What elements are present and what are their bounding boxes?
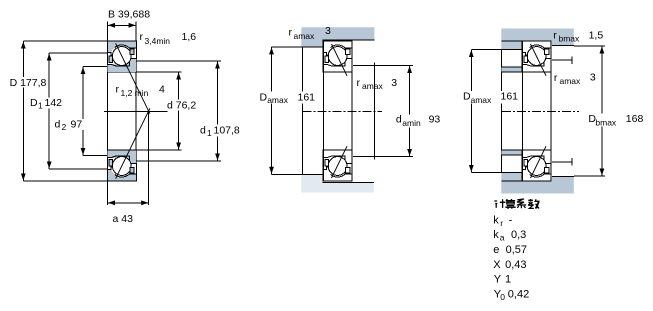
label D_bmax 168 [587, 114, 643, 127]
title 计算系数 drawn as stroke glyphs [494, 199, 539, 209]
svg-text:amax: amax [294, 31, 316, 41]
D_amax dimension [272, 46, 302, 48]
svg-text:r: r [116, 84, 120, 96]
svg-text:107,8: 107,8 [214, 125, 240, 137]
算 [505, 199, 515, 209]
contact line top [531, 44, 547, 76]
svg-text:1,6: 1,6 [182, 31, 197, 43]
svg-text:r: r [500, 218, 503, 228]
d1 dimension [136, 60, 221, 62]
svg-text:amax: amax [267, 95, 289, 105]
bearing right face vertical [550, 41, 552, 181]
label d_amin 93 [395, 115, 441, 128]
D dimension [23, 40, 107, 42]
label D 177,8 [9, 77, 51, 88]
housing top bar with steps [501, 29, 574, 50]
housing bore face vertical [301, 47, 303, 174]
svg-text:1,5: 1,5 [589, 30, 604, 42]
axis centerline [502, 110, 579, 112]
svg-text:0: 0 [500, 292, 505, 302]
数 [528, 199, 539, 209]
svg-text:r: r [357, 77, 361, 89]
shaft shoulder face vertical [374, 63, 376, 160]
label D_amax 161 [462, 91, 518, 104]
label D1 142 [29, 98, 65, 109]
lip top line [501, 172, 521, 174]
bearing left face vertical [521, 41, 523, 181]
shaft washer strip bottom [501, 150, 522, 155]
axis centerline [104, 110, 168, 112]
svg-text:0,3: 0,3 [511, 229, 526, 241]
svg-text:d: d [55, 119, 61, 131]
svg-text:0,43: 0,43 [505, 259, 526, 271]
shaft shoulder face vertical [500, 50, 502, 173]
bore edge line bottom section [522, 149, 551, 151]
shaft washer strip top [501, 67, 522, 72]
bearing right face vertical [135, 22, 137, 182]
svg-text:a 43: a 43 [113, 213, 134, 225]
svg-text:Y: Y [494, 274, 502, 286]
svg-text:d 76,2: d 76,2 [167, 100, 196, 112]
svg-text:1: 1 [505, 274, 511, 286]
svg-text:2: 2 [62, 122, 67, 132]
lip bottom line [501, 49, 521, 51]
housing bore line bottom [323, 182, 374, 184]
top ring section [323, 41, 352, 72]
bearing right face vertical [351, 41, 353, 181]
svg-text:bmax: bmax [595, 118, 617, 128]
svg-text:r: r [140, 31, 144, 43]
D_bmax dimension [574, 45, 605, 47]
label d1 107,8 [199, 125, 244, 137]
D1 dimension [49, 52, 107, 54]
svg-text:d: d [396, 113, 402, 125]
svg-text:amax: amax [471, 95, 493, 105]
svg-text:-: - [509, 214, 513, 226]
svg-text:161: 161 [298, 91, 316, 103]
D_amax dimension [471, 49, 501, 51]
label d 76,2 [166, 100, 200, 111]
svg-text:amax: amax [362, 81, 384, 91]
housing shoulder lip bottom edge [301, 46, 323, 48]
bore step line right (D_bmax) [552, 45, 574, 47]
svg-text:3,4min: 3,4min [145, 36, 171, 46]
top ring section [522, 41, 551, 72]
bore edge line bottom section [107, 149, 136, 151]
bottom ring section [522, 150, 551, 181]
svg-text:amin: amin [402, 118, 421, 128]
bore edge line bottom section [323, 149, 352, 151]
housing bottom shoulder lip top edge [301, 173, 323, 175]
svg-text:D 177,8: D 177,8 [10, 77, 47, 89]
svg-text:3: 3 [391, 77, 397, 89]
d2 dimension [83, 66, 107, 68]
svg-text:3: 3 [325, 25, 331, 37]
svg-text:r: r [289, 27, 293, 39]
label D_amax 161 [259, 92, 316, 104]
top ring section [107, 41, 136, 72]
svg-text:0,42: 0,42 [508, 288, 529, 300]
contact angle line top ball [116, 43, 150, 113]
lip top line [501, 40, 521, 42]
svg-text:D: D [30, 97, 38, 109]
svg-text:X: X [493, 259, 501, 271]
r_amax tick top [552, 59, 572, 61]
svg-text:e: e [493, 244, 499, 256]
a dim right vertical [148, 111, 150, 205]
contact angle line bottom ball [116, 108, 150, 178]
housing bore line top [323, 39, 375, 41]
a dimension [107, 202, 148, 204]
bottom ring section [107, 150, 136, 181]
label d2 97 [54, 119, 86, 130]
svg-text:142: 142 [45, 97, 63, 109]
bearing left face vertical [106, 22, 108, 206]
计 [494, 199, 505, 208]
系 [517, 199, 526, 208]
lip bottom line [501, 180, 521, 182]
contact line top [332, 44, 348, 76]
svg-text:bmax: bmax [559, 34, 581, 44]
d_amin dimension [353, 65, 413, 67]
svg-text:161: 161 [501, 91, 519, 103]
bottom ring section [323, 150, 352, 181]
svg-text:k: k [493, 229, 499, 241]
housing bottom bar with steps [501, 173, 574, 194]
r_amax tick bottom [552, 161, 572, 163]
svg-text:168: 168 [626, 113, 644, 125]
B dimension [107, 24, 136, 26]
svg-text:93: 93 [429, 113, 441, 125]
svg-text:0,57: 0,57 [506, 244, 527, 256]
svg-text:B 39,688: B 39,688 [108, 9, 150, 21]
housing bottom bar with shoulder lip (light) [301, 174, 374, 192]
svg-text:97: 97 [71, 119, 83, 131]
svg-text:a: a [500, 233, 505, 243]
svg-text:k: k [493, 214, 499, 226]
svg-text:d: d [200, 125, 206, 137]
d dimension [136, 71, 181, 73]
svg-text:r: r [554, 72, 558, 84]
svg-text:1,2 min: 1,2 min [121, 88, 149, 98]
housing top bar with shoulder lip [301, 27, 374, 47]
svg-text:amax: amax [560, 76, 582, 86]
axis centerline [303, 110, 382, 112]
bore step line right (D_bmax) [552, 175, 574, 177]
svg-text:1: 1 [207, 128, 212, 138]
svg-text:r: r [553, 30, 557, 42]
svg-text:4: 4 [159, 84, 165, 96]
svg-text:3: 3 [590, 72, 596, 84]
contact line bottom [332, 146, 348, 178]
svg-text:1: 1 [38, 101, 43, 111]
bearing left face vertical [322, 41, 324, 181]
contact line bottom [531, 146, 547, 178]
